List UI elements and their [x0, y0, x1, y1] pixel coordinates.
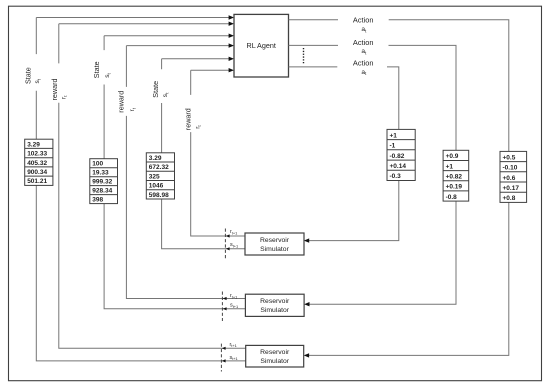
- arrowhead into simulator 1 input: [304, 238, 309, 242]
- svg-text:928.34: 928.34: [92, 188, 112, 195]
- svg-text:rt+1: rt+1: [230, 293, 237, 299]
- svg-text:Simulator: Simulator: [260, 307, 289, 314]
- label: reward r_t (pair 3): [184, 108, 203, 130]
- arrowhead into RL Agent pin 6: [229, 68, 234, 72]
- svg-text:598.98: 598.98: [149, 192, 169, 199]
- svg-text:Action: Action: [353, 59, 374, 68]
- svg-text:+0.17: +0.17: [503, 185, 520, 192]
- svg-text:102.33: 102.33: [27, 151, 47, 158]
- time boundary dashed line (simulator 3): [220, 344, 222, 372]
- svg-text:-0.3: -0.3: [390, 173, 402, 180]
- wire: Action a_t output 2 (to simulator 2 via bus x=456): [289, 45, 457, 304]
- op block U1: RL Agent: [234, 14, 289, 77]
- svg-text:+0.14: +0.14: [390, 163, 407, 170]
- svg-text:405.32: 405.32: [27, 160, 47, 167]
- wire: reward r_t from simulator 1 up to RL Agent (net R3): [191, 70, 246, 236]
- state value table T1 (3.29 / 102.33 / 405.32 / 900.34 / 501.21): [25, 139, 53, 185]
- arrowhead into RL Agent pin 4: [229, 43, 234, 47]
- block: Reservoir Simulator 3 (bottom): [246, 345, 304, 367]
- state value table T2 (100 / 19.33 / 999.32 / 928.34 / 398): [90, 159, 118, 204]
- svg-text:100: 100: [92, 161, 103, 168]
- label: Action a_t (output 3): [353, 59, 374, 77]
- arrowhead into RL Agent pin 2: [229, 22, 234, 26]
- arrowhead s_{t+1} crossing boundary 2: [223, 307, 227, 310]
- block: Reservoir Simulator 1 (top): [245, 233, 304, 255]
- svg-text:501.21: 501.21: [27, 178, 47, 185]
- arrowhead r_{t+1} crossing boundary 3: [222, 347, 226, 350]
- svg-text:672.32: 672.32: [149, 164, 169, 171]
- svg-text:3.29: 3.29: [27, 141, 40, 148]
- svg-text:State: State: [92, 61, 101, 78]
- time boundary dashed line (simulator 2): [221, 292, 223, 322]
- svg-text:+1: +1: [446, 163, 454, 170]
- svg-text:reward: reward: [184, 108, 193, 130]
- svg-text:reward: reward: [50, 79, 59, 101]
- svg-text:rt+1: rt+1: [230, 342, 237, 348]
- arrowhead into simulator 3 input: [304, 353, 309, 357]
- arrowhead s_{t+1} crossing boundary 1: [226, 247, 230, 250]
- arrowhead into RL Agent pin 1: [229, 15, 234, 19]
- svg-text:State: State: [24, 67, 33, 84]
- label: State s_t (pair 3): [151, 81, 169, 98]
- svg-text:State: State: [151, 81, 160, 98]
- svg-text:1046: 1046: [149, 183, 164, 190]
- svg-text:reward: reward: [117, 91, 126, 113]
- label: reward r_t (pair 1): [50, 79, 68, 101]
- wire: state s_t from simulator 2 up to RL Agent (net S2): [104, 36, 245, 309]
- svg-text:19.33: 19.33: [92, 170, 109, 177]
- svg-text:Reservoir: Reservoir: [260, 349, 290, 356]
- svg-text:Action: Action: [353, 15, 374, 24]
- ellipsis: more action outputs (dotted continuation): [303, 48, 305, 64]
- state value table T3 (3.29 / 672.32 / 325 / 1046 / 598.98): [146, 153, 174, 199]
- action value table A3 (+0.5 / -0.10 / +0.6 / +0.17 / +0.8) on bus x=508.8: [500, 151, 527, 202]
- wire: reward r_t from simulator 2 up to RL Agent (net R2): [126, 46, 245, 299]
- svg-text:-1: -1: [390, 143, 396, 150]
- label: State s_t (pair 2): [92, 61, 111, 78]
- label: Action a_t (output 2): [353, 38, 374, 56]
- svg-text:Action: Action: [353, 38, 374, 47]
- svg-text:+0.6: +0.6: [503, 175, 516, 182]
- svg-text:+0.19: +0.19: [446, 184, 463, 191]
- svg-text:st+1: st+1: [230, 303, 238, 309]
- arrowhead s_{t+1} crossing boundary 3: [222, 359, 226, 362]
- svg-text:RL Agent: RL Agent: [247, 41, 276, 50]
- svg-text:3.29: 3.29: [149, 155, 162, 162]
- label: Action a_t (output 1): [353, 15, 374, 33]
- svg-text:-0.82: -0.82: [390, 153, 405, 160]
- arrowhead r_{t+1} crossing boundary 2: [223, 297, 227, 300]
- arrowhead into RL Agent pin 5: [229, 57, 234, 61]
- wire: state s_t from simulator 1 up to RL Agent (net S3): [162, 59, 246, 249]
- svg-text:Reservoir: Reservoir: [260, 298, 290, 305]
- label: reward r_t (pair 2): [117, 91, 137, 113]
- arrowhead into RL Agent pin 3: [229, 34, 234, 38]
- wire: Action a_t output 1 (to simulator 3 via right bus x=508.8): [289, 20, 509, 356]
- svg-text:398: 398: [92, 197, 103, 204]
- action value table A1 (+1 / -1 / -0.82 / +0.14 / -0.3) on bus x=398.8: [387, 129, 415, 180]
- svg-text:+0.8: +0.8: [503, 195, 516, 202]
- arrowhead into simulator 2 input: [304, 302, 309, 306]
- svg-text:-0.8: -0.8: [446, 194, 458, 201]
- arrowhead r_{t+1} crossing boundary 1: [226, 234, 230, 237]
- wire: state s_t from simulator 3 up to RL Agent (net S1): [36, 18, 245, 361]
- svg-text:+1: +1: [390, 132, 398, 139]
- svg-text:Reservoir: Reservoir: [260, 237, 290, 244]
- wire: Action a_t output 3 (to simulator 1 via bus x=398.8): [289, 67, 399, 241]
- svg-text:st+1: st+1: [230, 242, 238, 248]
- svg-text:+0.82: +0.82: [446, 174, 463, 181]
- svg-text:999.32: 999.32: [92, 179, 112, 186]
- svg-text:Simulator: Simulator: [260, 358, 289, 365]
- block: Reservoir Simulator 2 (middle): [245, 294, 304, 316]
- svg-text:900.34: 900.34: [27, 169, 47, 176]
- svg-text:rt+1: rt+1: [230, 229, 237, 235]
- svg-text:Simulator: Simulator: [260, 246, 289, 253]
- label: State s_t (pair 1): [24, 67, 42, 84]
- time boundary dashed line (simulator 1): [224, 229, 226, 260]
- svg-text:-0.10: -0.10: [503, 165, 518, 172]
- svg-text:325: 325: [149, 173, 160, 180]
- wire: reward r_t from simulator 3 up to RL Agent (net R1): [59, 24, 246, 349]
- svg-text:+0.5: +0.5: [503, 154, 516, 161]
- action value table A2 (+0.9 / +1 / +0.82 / +0.19 / -0.8) on bus x=456: [443, 150, 469, 201]
- svg-text:+0.9: +0.9: [446, 153, 459, 160]
- svg-text:st+1: st+1: [230, 355, 238, 361]
